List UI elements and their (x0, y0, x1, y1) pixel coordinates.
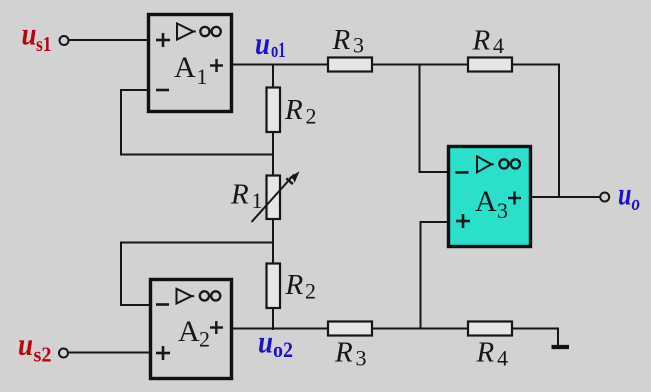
svg-text:4: 4 (493, 33, 504, 58)
label R2 (upper) (284, 94, 317, 129)
svg-text:u: u (255, 25, 270, 61)
svg-text:R: R (230, 179, 249, 211)
op-amp U3 (A3) (449, 147, 531, 247)
label R3 (lower) (334, 337, 367, 371)
svg-text:R: R (334, 337, 353, 369)
svg-text:o1: o1 (271, 37, 286, 62)
resistor R1 (variable, with arrow) (252, 171, 300, 222)
svg-text:3: 3 (353, 33, 364, 58)
wire A1 feedback from inverting input to node between R2 and R1 (120, 89, 274, 156)
resistor R3 (lower) (328, 322, 372, 336)
wire A2 output to lower R3 (231, 328, 328, 330)
svg-text:1: 1 (252, 188, 263, 213)
svg-text:R: R (472, 25, 491, 57)
label R2 (lower) (285, 269, 317, 304)
svg-text:u: u (258, 324, 273, 360)
terminal u_s1 (60, 36, 69, 45)
svg-text:o: o (632, 190, 641, 215)
resistor R2 (lower) (267, 264, 281, 309)
wire A2 feedback from node between R1 and lower R2 to A2 inverting input (120, 242, 274, 307)
wire A3 output to terminal (530, 196, 600, 198)
wire A2 output node to lower R4 (372, 328, 468, 330)
wire junction down to A3 inverting input (419, 64, 450, 174)
wire R2 lower to A2 output node (272, 307, 274, 330)
label R4 (upper) (472, 25, 505, 59)
node label u_s1 (22, 16, 52, 57)
terminal u_s2 (59, 349, 68, 358)
svg-text:R: R (284, 94, 303, 126)
resistor R2 (upper) (267, 88, 281, 133)
label R4 (lower) (476, 337, 509, 371)
svg-text:A: A (178, 315, 200, 348)
svg-text:2: 2 (199, 327, 210, 352)
ground (552, 345, 570, 349)
op-amp U1 (A1) (149, 15, 232, 112)
svg-text:s2: s2 (34, 343, 52, 367)
svg-text:1: 1 (197, 64, 208, 89)
svg-text:R: R (332, 24, 351, 56)
wire junction up to A3 non-inverting input (420, 221, 450, 330)
resistor R3 (upper) (328, 58, 372, 72)
wire u_s1 input to A1 noninverting input (69, 39, 148, 41)
op-amp U2 (A2) (151, 280, 232, 379)
svg-text:3: 3 (497, 198, 508, 223)
wire R2 to R1 (272, 131, 274, 176)
svg-text:u: u (618, 176, 632, 212)
svg-text:u: u (18, 326, 33, 362)
wire u_s2 input to A2 noninverting input (69, 352, 150, 354)
svg-text:A: A (475, 185, 497, 218)
svg-text:R: R (476, 337, 495, 369)
node label u_o1 (255, 25, 286, 62)
label R3 (upper) (332, 24, 365, 58)
svg-text:u: u (22, 16, 37, 52)
svg-text:3: 3 (356, 346, 367, 371)
wire R3 upper to R4 upper (372, 64, 468, 66)
wire A1 output to R3 (232, 64, 328, 66)
svg-text:A: A (174, 51, 196, 84)
wire R4 lower to ground (512, 328, 559, 346)
node label u_o2 (258, 324, 293, 363)
svg-text:2: 2 (306, 104, 317, 129)
resistor R4 (upper) (468, 58, 512, 72)
label R1 (230, 179, 263, 214)
wire R1 to R2 lower (272, 219, 274, 264)
wire node uo1 down to R2 (272, 65, 274, 89)
node label u_s2 (18, 326, 52, 367)
svg-text:4: 4 (497, 346, 508, 371)
svg-text:s1: s1 (36, 32, 52, 56)
node label u_o (618, 176, 640, 216)
svg-text:o2: o2 (273, 337, 293, 362)
wire R4 upper feedback to output node (512, 64, 560, 199)
resistor R4 (lower) (468, 322, 512, 336)
svg-text:2: 2 (305, 279, 316, 304)
svg-text:R: R (285, 269, 304, 301)
terminal u_o (600, 193, 609, 202)
